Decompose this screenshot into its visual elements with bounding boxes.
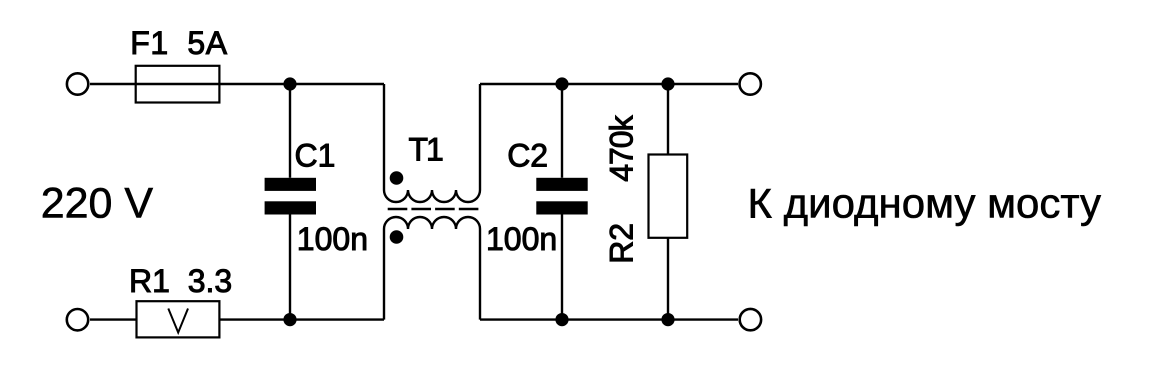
- terminal input bottom-left: [67, 309, 88, 330]
- transformer T1: [384, 84, 480, 320]
- junction node C2 bottom: [555, 313, 568, 326]
- junction node R2 bottom: [661, 313, 674, 326]
- wire bottom rail: transformer right to output terminal: [480, 318, 738, 320]
- T1 core (dashed): [388, 208, 479, 211]
- terminal output bottom-right: [740, 309, 761, 330]
- resistor R2: [649, 155, 688, 238]
- terminal output top-right: [740, 73, 761, 94]
- T1 phase dot primary: [390, 171, 404, 185]
- svg-text:R2: R2: [604, 223, 640, 264]
- wire T1 secondary right lead: [479, 229, 481, 320]
- wire R2 bottom lead: [667, 238, 669, 320]
- wire T1 secondary left lead: [383, 229, 385, 320]
- svg-text:К диодному мосту: К диодному мосту: [748, 179, 1102, 226]
- svg-text:F1 5A: F1 5A: [130, 25, 227, 61]
- junction node C1 bottom: [283, 313, 296, 326]
- svg-text:470k: 470k: [604, 114, 640, 181]
- wire bottom rail: R1 to transformer left: [219, 318, 384, 320]
- junction node C1 top: [283, 77, 296, 90]
- svg-text:100n: 100n: [297, 221, 368, 257]
- junction node C2 top: [555, 77, 568, 90]
- wire C2 bottom lead: [561, 215, 563, 320]
- wire top rail: transformer right to output terminal: [480, 83, 738, 85]
- resistor R1: [137, 301, 220, 337]
- svg-text:100n: 100n: [486, 221, 557, 257]
- wire R2 top lead: [667, 84, 669, 155]
- terminal input top-left: [67, 73, 88, 94]
- wire C2 top lead: [561, 84, 563, 178]
- fuse F1: [136, 66, 220, 103]
- svg-text:T1: T1: [409, 131, 444, 167]
- capacitor C1: [265, 178, 316, 215]
- junction node R2 top: [661, 77, 674, 90]
- T1 primary winding: [384, 190, 480, 202]
- wire bottom rail: input terminal to resistor R1: [90, 318, 137, 320]
- wire top rail: input terminal to transformer left, passes through fuse: [90, 83, 384, 85]
- svg-text:C1: C1: [295, 137, 336, 173]
- wire C1 bottom lead: [289, 215, 291, 320]
- svg-text:C2: C2: [507, 137, 548, 173]
- T1 secondary winding: [384, 217, 480, 229]
- svg-text:220 V: 220 V: [41, 179, 154, 227]
- wire T1 primary right lead: [479, 84, 481, 190]
- capacitor C2: [536, 178, 587, 215]
- varistor V mark inside R1: [168, 309, 188, 333]
- T1 phase dot secondary: [390, 230, 404, 244]
- wire T1 primary left lead: [383, 84, 385, 190]
- wire C1 top lead: [289, 84, 291, 178]
- svg-text:R1 3.3: R1 3.3: [129, 263, 232, 299]
